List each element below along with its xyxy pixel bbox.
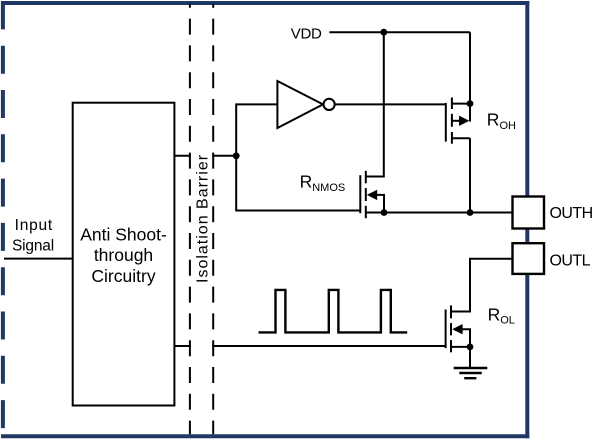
transistor RNMOS — [360, 171, 384, 218]
VDD junction dot — [380, 29, 387, 36]
wire: block to barrier (upper stub) — [174, 155, 191, 157]
wire: block to barrier (lower stub) — [174, 345, 191, 347]
OUTH junction dot — [467, 209, 474, 216]
isolation barrier dashed line left — [189, 4, 191, 435]
svg-text:Input: Input — [15, 217, 53, 234]
svg-text:OUTH: OUTH — [550, 205, 593, 222]
isolation barrier label — [194, 154, 211, 283]
transistor ROH — [446, 98, 470, 144]
wire: barrier to node A (upper) — [212, 155, 236, 157]
wire: OUTH net — [366, 212, 513, 214]
op-amp U1 inverter triangle — [277, 81, 323, 128]
anti shoot-through circuitry block — [73, 103, 175, 406]
package outline right border — [525, 1, 529, 438]
isolation barrier dashed line right — [212, 4, 214, 435]
OUTH label — [550, 205, 593, 222]
OUTL pin box — [513, 243, 545, 274]
svg-text:VDD: VDD — [291, 26, 322, 43]
ground — [454, 368, 488, 378]
input signal wire — [4, 258, 73, 260]
RNMOS label — [300, 171, 346, 194]
OUTH pin box — [513, 197, 545, 229]
package outline bottom border — [1, 434, 529, 438]
transistor ROL — [446, 305, 470, 352]
svg-text:through: through — [94, 245, 153, 265]
ROH label — [487, 110, 516, 132]
VDD label — [291, 26, 322, 43]
ROH drain junction dot — [467, 100, 474, 107]
wire: ROH source to OUTH node — [469, 138, 471, 212]
wire: inverter output to ROH gate — [335, 103, 446, 105]
node A junction dot — [233, 152, 240, 159]
svg-text:RNMOS: RNMOS — [300, 171, 346, 194]
ROL label — [488, 304, 515, 326]
package outline left border (dashed) — [1, 1, 5, 430]
svg-text:Signal: Signal — [12, 238, 54, 255]
wire: OUTL to ROL drain — [451, 259, 513, 312]
wire: VDD to ROH drain — [469, 32, 471, 121]
svg-text:ROH: ROH — [487, 110, 516, 132]
inverter bubble — [324, 99, 335, 110]
svg-text:OUTL: OUTL — [550, 253, 591, 270]
package outline top border — [1, 1, 529, 5]
wire: VDD to RNMOS drain — [366, 32, 384, 176]
svg-text:Circuitry: Circuitry — [91, 266, 155, 286]
svg-text:Isolation Barrier: Isolation Barrier — [194, 154, 211, 283]
wire: barrier to ROL gate — [212, 345, 445, 347]
input signal label — [12, 217, 54, 255]
pulse waveform — [259, 290, 408, 333]
OUTL label — [550, 253, 591, 270]
svg-text:ROL: ROL — [488, 304, 515, 326]
svg-text:Anti Shoot-: Anti Shoot- — [80, 224, 167, 244]
wire: node A vertical (inverter input / RNMOS gate feed) — [236, 104, 360, 210]
RNMOS source junction dot — [381, 209, 388, 216]
wire: VDD rail — [329, 31, 470, 33]
ROL source junction dot — [467, 344, 474, 351]
wire: ROL source to ground — [469, 347, 471, 368]
